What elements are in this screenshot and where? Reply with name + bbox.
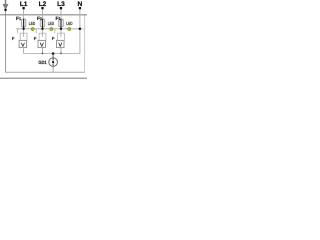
wire GD1 to PE line bbox=[52, 66, 54, 72]
enclosure right edge bbox=[84, 15, 86, 72]
terminal dot L3 bbox=[60, 7, 62, 9]
LED line stub to right edge bbox=[80, 28, 84, 30]
svg-text:LED: LED bbox=[66, 21, 73, 26]
disconnect box module 2 bbox=[39, 33, 46, 40]
svg-text:F: F bbox=[52, 36, 55, 41]
wire L1 vertical bbox=[23, 8, 25, 36]
svg-text:LED: LED bbox=[48, 21, 55, 26]
junction dot N / LED line bbox=[79, 28, 82, 31]
junction dot bus / module 2 bbox=[42, 53, 44, 55]
fuse F2 body (L2) bbox=[40, 19, 45, 27]
varistor V box module 1 bbox=[19, 40, 27, 47]
LED indicator 2 bbox=[50, 27, 53, 30]
disconnect stub module 1 bbox=[16, 29, 18, 34]
disconnect stub module 3 bbox=[54, 29, 56, 34]
fuse element dark segment bbox=[60, 19, 62, 29]
terminal dot N bbox=[79, 7, 81, 9]
gas discharge tube GD1 bbox=[49, 58, 58, 67]
svg-text:V: V bbox=[59, 42, 63, 48]
enclosure left edge / PE down-conductor bbox=[5, 10, 7, 72]
PE arrow bbox=[3, 0, 8, 9]
disconnect box module 3 bbox=[58, 33, 65, 40]
GD1 bottom electrode bbox=[52, 64, 54, 67]
varistor V box module 3 bbox=[57, 40, 65, 47]
PE terminal dot bbox=[4, 9, 6, 11]
top busbar bbox=[0, 14, 87, 16]
GD1 top electrode bbox=[52, 58, 54, 61]
svg-text:GD1: GD1 bbox=[38, 60, 47, 65]
enclosure bottom edge / PE collecting line bbox=[5, 71, 85, 73]
junction dot fuse 2 / LED line bbox=[41, 28, 43, 30]
wire L1 varistor to bus bbox=[23, 48, 25, 54]
terminal dot L2 bbox=[41, 7, 43, 9]
junction dot bus / GD1 bbox=[52, 52, 55, 55]
junction dot fuse 1 / LED line bbox=[22, 28, 24, 30]
LED indicator 3 bbox=[68, 27, 71, 30]
svg-text:V: V bbox=[40, 42, 44, 48]
svg-text:F: F bbox=[34, 36, 37, 41]
LED monitoring line bbox=[16, 28, 80, 30]
bottom PE busbar bbox=[0, 77, 87, 79]
wire L3 vertical bbox=[60, 8, 62, 36]
fuse element dark segment bbox=[42, 19, 44, 29]
wire L2 varistor to bus bbox=[42, 48, 44, 54]
terminal dot L1 bbox=[22, 7, 24, 9]
junction dot bus / module 3 bbox=[60, 53, 62, 55]
wire L3 varistor to bus bbox=[60, 48, 62, 54]
svg-text:F: F bbox=[12, 36, 15, 41]
wire N vertical bbox=[79, 8, 81, 53]
LED indicator 1 bbox=[31, 27, 34, 30]
varistor V box module 2 bbox=[38, 40, 46, 47]
fuse F3 body (L3) bbox=[59, 19, 64, 27]
svg-text:V: V bbox=[21, 42, 25, 48]
junction dot fuse 3 / LED line bbox=[60, 28, 62, 30]
disconnect stub module 2 bbox=[35, 29, 37, 34]
wire L2 vertical bbox=[42, 8, 44, 36]
wire bus to GD1 bbox=[52, 54, 54, 58]
GD1 center dot bbox=[52, 61, 54, 63]
svg-text:LED: LED bbox=[29, 21, 36, 26]
fuse F1 body (L1) bbox=[21, 19, 26, 27]
bottom common bus bbox=[23, 52, 80, 54]
fuse element dark segment bbox=[23, 19, 25, 29]
disconnect box module 1 bbox=[20, 33, 27, 40]
